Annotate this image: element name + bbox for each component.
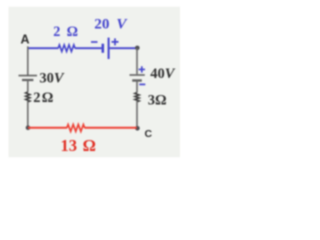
wire resistor 2Ω to bottom-left corner [27,101,29,128]
wire top-right corner down to battery 40V [136,48,138,74]
wire resistor 3Ω to node C [136,101,138,129]
battery V2 40V negative short bar [132,79,142,81]
svg-text:30V: 30V [39,70,65,86]
svg-text:2 Ω: 2 Ω [53,24,78,40]
battery V2 40V plus sign [139,66,145,72]
svg-text:A: A [21,33,30,47]
node C junction dot [135,126,140,131]
svg-text:13 Ω: 13 Ω [61,136,96,155]
wire battery 20V to top-right corner [110,47,138,49]
node top-right junction dot [135,46,140,51]
wire battery 40V to resistor 3Ω [136,81,138,93]
battery V2 40V minus sign [139,83,145,85]
resistor R2 2Ω (left vertical zigzag) [26,92,30,102]
battery V1 20V plus sign [112,38,119,45]
battery V1 20V negative short bar [102,44,105,53]
node bottom-left junction dot [26,125,31,130]
wire A down to battery 30V (left branch) [27,46,29,75]
svg-text:40V: 40V [150,66,176,82]
svg-text:3Ω: 3Ω [148,92,167,108]
svg-text:C: C [145,128,153,140]
wire battery 30V to resistor 2Ω left [27,80,29,92]
battery V1 20V positive long bar [108,38,110,59]
battery V1 20V minus sign [91,41,98,43]
wire A to R1 (top left, blue) [27,47,58,49]
svg-text:2 Ω: 2 Ω [33,90,53,106]
battery V2 40V positive long bar [130,74,145,76]
wire R1 to battery 20V [75,47,102,49]
resistor R3 3Ω (right vertical zigzag) [135,93,139,102]
wire resistor 13Ω to node C (red) [85,127,137,129]
panel background [9,7,181,158]
battery V3 30V negative short bar [22,79,33,81]
resistor R4 13Ω (red horizontal zigzag) [67,124,85,131]
svg-text:20 V: 20 V [94,16,128,33]
resistor R1 2Ω (top horizontal zigzag) [58,45,75,52]
battery V3 30V positive long bar [19,75,38,77]
wire bottom-left to resistor 13Ω (red) [28,127,67,129]
